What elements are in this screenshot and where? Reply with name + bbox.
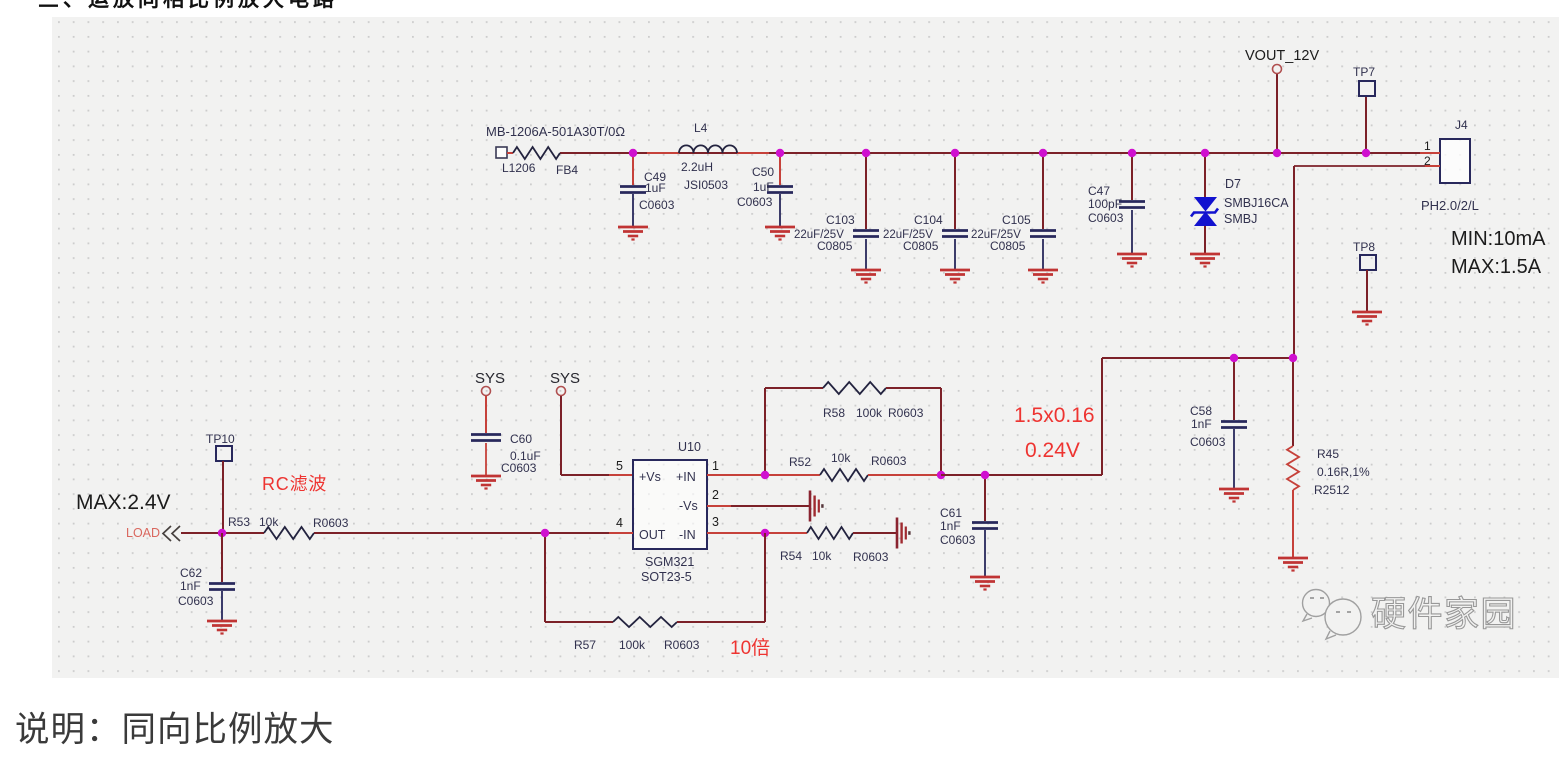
ground C50 [765, 194, 795, 240]
svg-text:10倍: 10倍 [730, 637, 770, 659]
svg-text:MAX:1.5A: MAX:1.5A [1451, 256, 1542, 278]
wire U10 pin4 stub [609, 532, 633, 534]
ground R54 gnd (rotated) [897, 518, 909, 549]
svg-text:C0805: C0805 [903, 239, 939, 253]
wire TP10 drop [222, 461, 224, 533]
inductor L4 [679, 121, 737, 192]
svg-text:2: 2 [712, 488, 719, 502]
junction rail-C49 [629, 149, 637, 157]
wire C103 drop [865, 153, 867, 229]
wire C61 drop [984, 475, 986, 521]
svg-text:MAX:2.4V: MAX:2.4V [76, 491, 171, 514]
wire J4 pin1 stub [1420, 152, 1440, 154]
junction rail-VOUT [1273, 149, 1281, 157]
svg-text:1uF: 1uF [645, 181, 666, 195]
svg-text:10k: 10k [831, 451, 851, 465]
svg-text:RC滤波: RC滤波 [262, 474, 327, 494]
wire R45 bottom lead [1292, 490, 1294, 557]
svg-text:5: 5 [616, 459, 623, 473]
resistor R53 [228, 515, 349, 539]
wire R57 loop right [764, 533, 766, 622]
wire TP8 to gnd [1366, 270, 1368, 311]
wire R52 right lead [868, 474, 941, 476]
wire R57 loop bottom-left [545, 621, 613, 623]
svg-text:4: 4 [616, 516, 623, 530]
svg-text:+Vs: +Vs [639, 470, 661, 484]
svg-text:VOUT_12V: VOUT_12V [1245, 48, 1319, 64]
svg-text:R54: R54 [780, 549, 802, 563]
svg-text:L1206: L1206 [502, 161, 536, 175]
wire R58 loop left [764, 388, 766, 475]
svg-text:100k: 100k [856, 406, 883, 420]
svg-text:10k: 10k [259, 515, 279, 529]
wire sense riser [1101, 358, 1103, 475]
svg-text:C58: C58 [1190, 404, 1212, 418]
wire pin2 to gnd [731, 505, 810, 507]
svg-text:SGM321: SGM321 [645, 555, 694, 569]
wire TP7 drop [1365, 96, 1367, 153]
capacitor C60 [471, 432, 541, 475]
resistor R45 [1287, 446, 1370, 497]
svg-text:OUT: OUT [639, 528, 666, 542]
wire R57 loop bottom-right [677, 621, 765, 623]
ground C104 [940, 239, 970, 283]
svg-text:2.2uH: 2.2uH [681, 160, 713, 174]
svg-text:R53: R53 [228, 515, 250, 529]
junction pin1 node [761, 471, 769, 479]
resistor R58 [823, 382, 924, 420]
junction OUT node [541, 529, 549, 537]
svg-text:-IN: -IN [679, 528, 696, 542]
junction pin3 node [761, 529, 769, 537]
junction rail-C50 [776, 149, 784, 157]
diode D7 (TVS SMBJ16CA) [1191, 177, 1289, 226]
ground C61 [970, 530, 1000, 590]
wire R58 loop top-right [886, 387, 941, 389]
svg-text:100pF: 100pF [1088, 197, 1122, 211]
wire R58 loop top-left [765, 387, 823, 389]
wire R52 left lead [765, 474, 820, 476]
svg-text:C104: C104 [914, 213, 943, 227]
svg-text:J4: J4 [1455, 118, 1468, 132]
svg-text:D7: D7 [1225, 177, 1241, 191]
svg-text:SMBJ: SMBJ [1224, 212, 1257, 226]
svg-text:R45: R45 [1317, 447, 1339, 461]
svg-text:SOT23-5: SOT23-5 [641, 570, 692, 584]
test point TP8 [1353, 240, 1376, 270]
svg-text:L4: L4 [694, 121, 708, 135]
test point TP10 [206, 432, 235, 461]
svg-text:C105: C105 [1002, 213, 1031, 227]
ground C60 [471, 443, 501, 489]
junction rail-C105 [1039, 149, 1047, 157]
wire OUT to R53 node [314, 532, 609, 534]
junction rail-C104 [951, 149, 959, 157]
svg-text:1nF: 1nF [180, 579, 201, 593]
svg-text:C62: C62 [180, 566, 202, 580]
svg-text:C50: C50 [752, 165, 774, 179]
test point TP7 [1353, 65, 1375, 96]
ground C47 [1117, 210, 1147, 267]
wire D7 to gnd [1204, 226, 1206, 253]
svg-text:C47: C47 [1088, 184, 1110, 198]
wire R52 out to corner [941, 474, 1102, 476]
svg-text:硬件家园: 硬件家园 [1371, 595, 1517, 634]
watermark logo (speech bubbles) [1303, 590, 1362, 640]
wire J4 pin2 [1294, 165, 1425, 167]
op-amp U10 (SGM321) [616, 440, 719, 584]
ground C105 [1028, 239, 1058, 283]
pad terminal (L1206 left) [496, 147, 507, 158]
wire LOAD to node [181, 532, 222, 534]
resistor R54 [780, 527, 889, 564]
svg-text:R0603: R0603 [664, 638, 700, 652]
junction C61 node [981, 471, 989, 479]
wire C104 drop [954, 153, 956, 229]
resistor FB4 [486, 124, 625, 177]
connector J4 [1421, 118, 1479, 213]
svg-text:R0603: R0603 [871, 454, 907, 468]
wire J4 pin2 vertical [1293, 166, 1295, 358]
svg-text:C0603: C0603 [178, 594, 214, 608]
wire U10 pin3 stub [707, 532, 765, 534]
svg-text:FB4: FB4 [556, 163, 578, 177]
svg-text:100k: 100k [619, 638, 646, 652]
svg-text:R0603: R0603 [853, 550, 889, 564]
power port circle VOUT_12V [1273, 65, 1282, 74]
wire R54 right lead [853, 532, 897, 534]
wire R45 top lead [1292, 358, 1294, 446]
ground -Vs (rotated) [810, 491, 822, 522]
svg-text:C60: C60 [510, 432, 532, 446]
capacitor C62 [178, 566, 235, 608]
svg-text:R57: R57 [574, 638, 596, 652]
svg-text:-Vs: -Vs [679, 499, 698, 513]
svg-text:PH2.0/2/L: PH2.0/2/L [1421, 198, 1479, 213]
svg-text:TP8: TP8 [1353, 240, 1375, 254]
ground C62 [207, 591, 237, 634]
svg-text:0.24V: 0.24V [1025, 439, 1080, 462]
capacitor C58 [1190, 404, 1247, 449]
svg-text:1uF: 1uF [753, 180, 774, 194]
wire sense top [1102, 357, 1293, 359]
wire SYS2 to pin5 [561, 474, 609, 476]
wire U10 pin1 stub [707, 474, 765, 476]
svg-text:C0805: C0805 [990, 239, 1026, 253]
ground C58 [1219, 429, 1249, 502]
svg-text:R0603: R0603 [888, 406, 924, 420]
svg-text:SMBJ16CA: SMBJ16CA [1224, 196, 1289, 210]
wire node to R53 [222, 532, 264, 534]
svg-text:0.16R,1%: 0.16R,1% [1317, 465, 1370, 479]
svg-text:C61: C61 [940, 506, 962, 520]
wire SYS2 drop [560, 396, 562, 475]
svg-text:R52: R52 [789, 455, 811, 469]
wire C49 drop [632, 153, 634, 185]
wire L4 left pin [647, 152, 679, 154]
ground R45 [1278, 558, 1308, 571]
svg-text:1nF: 1nF [1191, 417, 1212, 431]
svg-text:TP7: TP7 [1353, 65, 1375, 79]
wire SYS1 drop [485, 396, 487, 433]
svg-text:C0603: C0603 [501, 461, 537, 475]
svg-text:C103: C103 [826, 213, 855, 227]
ground C103 [851, 239, 881, 283]
wire C62 drop [221, 533, 223, 582]
junction R45 node [1289, 354, 1297, 362]
wire C58 drop [1233, 358, 1235, 420]
svg-text:C0603: C0603 [639, 198, 675, 212]
wire L4 right pin [737, 152, 769, 154]
wire C47 drop [1131, 153, 1133, 200]
capacitor C49 [620, 170, 675, 212]
resistor R57 [574, 617, 700, 652]
svg-text:1nF: 1nF [940, 519, 961, 533]
capacitor C61 [940, 506, 998, 547]
cropped heading text (top edge) [0, 0, 600, 11]
svg-text:SYS: SYS [475, 370, 505, 387]
svg-text:C0603: C0603 [737, 195, 773, 209]
svg-text:SYS: SYS [550, 370, 580, 387]
ground D7 [1190, 254, 1220, 267]
capacitor C103 [794, 213, 879, 253]
junction rail-C47 [1128, 149, 1136, 157]
svg-text:3: 3 [712, 515, 719, 529]
capacitor C47 [1088, 184, 1145, 225]
wire C50 drop [779, 153, 781, 185]
svg-text:U10: U10 [678, 440, 701, 454]
junction rail-C103 [862, 149, 870, 157]
junction LOAD node [218, 529, 226, 537]
svg-text:C0603: C0603 [1088, 211, 1124, 225]
capacitor C50 [737, 165, 793, 209]
capacitor C104 [883, 213, 968, 253]
svg-text:1.5x0.16: 1.5x0.16 [1014, 404, 1095, 427]
wire pad to FB4 [507, 152, 513, 154]
svg-text:C0805: C0805 [817, 239, 853, 253]
ground TP8 [1352, 312, 1382, 325]
resistor R52 [789, 451, 907, 481]
junction rail-TP7 [1362, 149, 1370, 157]
junction R52 out node [937, 471, 945, 479]
svg-text:C0603: C0603 [940, 533, 976, 547]
svg-text:R58: R58 [823, 406, 845, 420]
capacitor C105 [971, 213, 1056, 253]
junction rail-D7 [1201, 149, 1209, 157]
svg-text:1: 1 [1424, 139, 1431, 153]
svg-text:LOAD: LOAD [126, 526, 160, 540]
svg-text:+IN: +IN [676, 470, 696, 484]
caption 说明 [15, 701, 335, 751]
power port circle SYS1 [482, 387, 491, 396]
svg-text:MIN:10mA: MIN:10mA [1451, 228, 1546, 250]
ground C49 [618, 194, 648, 240]
svg-text:R0603: R0603 [313, 516, 349, 530]
power port circle SYS2 [557, 387, 566, 396]
wire C105 drop [1042, 153, 1044, 229]
junction C58 node [1230, 354, 1238, 362]
port LOAD [126, 526, 180, 541]
svg-text:TP10: TP10 [206, 432, 235, 446]
wire R57 loop left [544, 533, 546, 622]
wire VOUT riser [1276, 74, 1278, 153]
wire U10 pin2 stub [707, 505, 731, 507]
svg-text:JSI0503: JSI0503 [684, 178, 728, 192]
svg-text:C0603: C0603 [1190, 435, 1226, 449]
wire R58 loop right [940, 388, 942, 475]
wire U10 pin5 stub [609, 474, 633, 476]
wire R54 left lead [765, 532, 807, 534]
svg-text:10k: 10k [812, 549, 832, 563]
svg-text:1: 1 [712, 459, 719, 473]
svg-text:R2512: R2512 [1314, 483, 1350, 497]
svg-text:MB-1206A-501A30T/0Ω: MB-1206A-501A30T/0Ω [486, 124, 625, 139]
wire D7 drop [1204, 153, 1206, 197]
wire VOUT_12V rail [560, 152, 1440, 154]
wire J4 pin2 stub [1425, 165, 1440, 167]
